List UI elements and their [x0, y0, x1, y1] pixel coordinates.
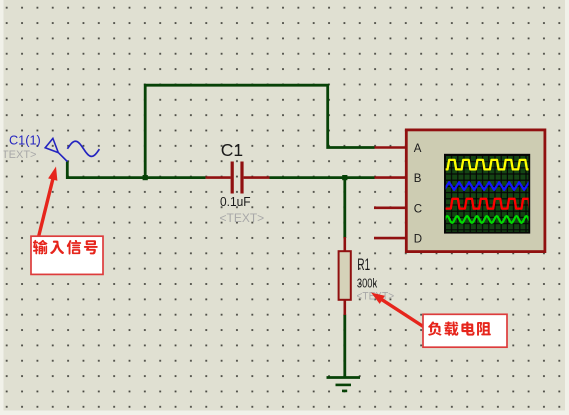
svg-text:D: D	[414, 234, 422, 246]
svg-text:R1: R1	[357, 254, 370, 273]
svg-text:<TEXT>: <TEXT>	[0, 149, 36, 161]
svg-text:C1: C1	[221, 140, 243, 160]
svg-text:A: A	[414, 143, 422, 155]
svg-text:B: B	[414, 173, 422, 185]
svg-text:0.1uF: 0.1uF	[220, 195, 251, 210]
svg-text:C1(1): C1(1)	[9, 134, 41, 148]
svg-text:<TEXT>: <TEXT>	[220, 211, 265, 225]
svg-text:300k: 300k	[357, 277, 378, 291]
svg-text:C: C	[414, 203, 422, 215]
